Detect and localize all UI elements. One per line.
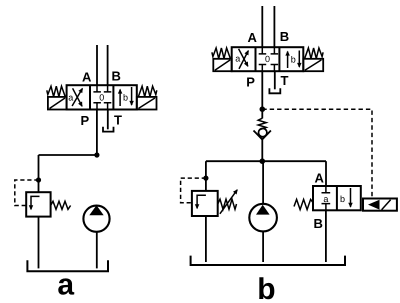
valve V2 position b: parallel arrows [288, 51, 300, 69]
valve V1 position a: crossed arrows [72, 88, 82, 106]
check valve CV1 inlet wire [261, 109, 263, 118]
label b [257, 273, 275, 303]
pilot line dashed relief RV2 [181, 178, 206, 203]
wire A-line above valve V1 [96, 45, 98, 85]
valve V2 centre position 0: blocked ports [259, 47, 278, 71]
wire T drain line valve V1 [107, 110, 109, 130]
svg-text:b: b [291, 55, 296, 65]
check valve CV1 seat [254, 131, 271, 140]
valve V1 position a label [68, 93, 73, 103]
wire pump P2 suction [262, 232, 264, 262]
svg-text:T: T [281, 73, 289, 88]
wire main horizontal circuit b [206, 160, 326, 162]
svg-text:P: P [81, 113, 90, 128]
relief valve RV2 spring [218, 199, 237, 209]
tank symbol T drain valve V2 [269, 88, 280, 93]
pilot line dashed to 2/2 valve V3 [262, 109, 372, 198]
node pilot tap relief RV2 [203, 176, 208, 181]
svg-text:0: 0 [265, 54, 270, 64]
valve V1 port label T [114, 112, 122, 127]
valve V1 left solenoid [48, 97, 67, 110]
wire B-line above valve V1 [107, 45, 109, 85]
svg-text:a: a [235, 53, 240, 63]
wire P-line below valve V1 [96, 110, 98, 156]
svg-text:P: P [246, 74, 255, 89]
relief valve RV1 spring [51, 201, 71, 209]
tank symbol circuit a [27, 260, 108, 271]
check valve CV1 spring [258, 118, 266, 129]
wire pump P2 top [262, 161, 264, 203]
valve V3 body (2/2 valve, circuit b) [313, 186, 361, 210]
svg-text:B: B [112, 69, 121, 84]
valve V3 solenoid diagonal [382, 200, 391, 210]
check valve CV1 outlet wire [261, 139, 263, 161]
valve V3 position b: flow arrow [350, 188, 352, 207]
svg-text:A: A [82, 70, 92, 85]
valve V2 right spring [305, 48, 323, 58]
valve V1 position b: parallel arrows [120, 87, 132, 106]
wire B-line above valve V2 [273, 6, 275, 47]
svg-text:a: a [57, 269, 74, 302]
valve V3 port label A [315, 170, 325, 185]
svg-text:a: a [68, 93, 73, 103]
valve V2 right solenoid [303, 59, 323, 71]
valve V1 centre position 0: blocked ports [93, 85, 111, 109]
node junction P/relief branch circuit a [94, 152, 99, 157]
wire relief RV2 to tank [205, 216, 207, 262]
svg-text:A: A [315, 170, 325, 185]
valve V3 position a label [323, 194, 328, 204]
check valve CV1 ball [259, 128, 267, 136]
tank symbol circuit b [191, 256, 345, 265]
relief valve RV1 internal arrow [31, 196, 40, 209]
valve V1 port label B [112, 69, 121, 84]
pump P1 triangle [89, 205, 103, 215]
pump P1 circle [83, 206, 109, 232]
valve V3 spring [294, 199, 313, 209]
relief valve RV2 internal arrow [197, 195, 206, 208]
valve V2 position b label [291, 55, 296, 65]
valve V2 body (4/3 directional valve, circuit b) [232, 47, 304, 71]
svg-text:B: B [280, 29, 289, 44]
valve V1 right solenoid [137, 97, 157, 110]
wire down to relief valve RV1 [38, 155, 40, 192]
node main junction circuit b [260, 158, 266, 164]
svg-text:0: 0 [99, 92, 104, 102]
node pilot tap relief RV1 [36, 177, 41, 182]
svg-text:b: b [257, 273, 275, 303]
svg-text:A: A [248, 30, 258, 45]
pump P2 triangle [256, 205, 270, 215]
svg-text:a: a [323, 194, 328, 204]
wire horizontal to relief valve RV1 [39, 154, 97, 156]
valve V2 port label A [248, 30, 258, 45]
wire down to relief valve RV2 [205, 161, 207, 191]
wire valve V3 port B to tank [325, 210, 327, 262]
node pilot branch circuit b [260, 106, 266, 112]
relief valve RV2 body [192, 191, 218, 216]
pilot line dashed relief RV1 [15, 180, 39, 206]
label a [57, 269, 74, 302]
svg-text:T: T [114, 112, 122, 127]
svg-text:b: b [340, 194, 345, 204]
wire to 2/2 valve V3 port A [325, 161, 327, 186]
valve V2 left solenoid [213, 59, 231, 71]
pump P2 circle [249, 204, 277, 232]
valve V1 port label P [81, 113, 90, 128]
valve V2 position a label [235, 53, 240, 63]
valve V1 port label A [82, 70, 92, 85]
relief valve RV2 adjustment arrow [220, 190, 237, 214]
valve V3 pilot/solenoid box [363, 199, 397, 211]
valve V3 position a: blocked ports [322, 186, 331, 210]
valve V3 pilot triangle [368, 200, 380, 210]
wire relief RV1 to tank [38, 217, 40, 269]
valve V2 position a: crossed arrows [239, 49, 249, 69]
valve V1 position 0 label [99, 92, 104, 102]
wire P-line below valve V2 [261, 71, 263, 109]
relief valve RV1 body [26, 192, 50, 216]
valve V2 port label T [281, 73, 289, 88]
tank symbol T drain valve V1 [103, 127, 114, 132]
valve V2 left spring [212, 48, 230, 58]
valve V2 port label B [280, 29, 289, 44]
valve V1 left spring [47, 86, 65, 96]
valve V2 port label P [246, 74, 255, 89]
wire T drain line valve V2 [274, 71, 276, 89]
valve V1 position b label [123, 93, 128, 103]
valve V3 port label B [314, 216, 323, 231]
wire A-line above valve V2 [261, 6, 263, 47]
svg-text:b: b [123, 93, 128, 103]
valve V1 body (4/3 directional valve, circuit a) [67, 85, 137, 109]
valve V3 position b label [340, 194, 345, 204]
wire pump P1 suction [96, 232, 98, 268]
valve V2 position 0 label [265, 54, 270, 64]
svg-text:B: B [314, 216, 323, 231]
valve V1 right spring [138, 86, 156, 96]
